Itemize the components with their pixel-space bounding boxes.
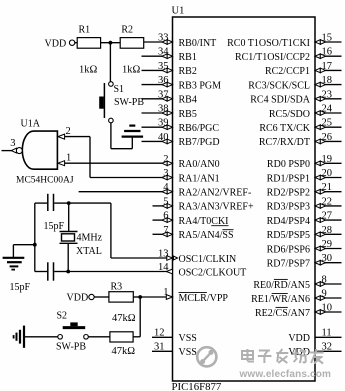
- svg-text:1: 1: [163, 287, 168, 298]
- svg-text:R2: R2: [121, 24, 133, 35]
- svg-text:11: 11: [322, 328, 332, 339]
- value label 1k&#937; (R1): [79, 64, 98, 75]
- svg-text:4: 4: [163, 182, 169, 193]
- U1 pin 7 (RA5/AN4/SS): [153, 225, 234, 241]
- svg-text:RA5/AN4/SS: RA5/AN4/SS: [179, 230, 234, 241]
- svg-text:27: 27: [322, 211, 333, 222]
- svg-text:VSS: VSS: [179, 347, 197, 358]
- ground (crystal): [3, 258, 25, 270]
- U1 pin 18 (RC3/SCK/SCL): [248, 75, 341, 91]
- svg-text:RC1/T1OSI/CCP2: RC1/T1OSI/CCP2: [235, 52, 310, 63]
- svg-text:MC54HC00AJ: MC54HC00AJ: [16, 176, 74, 186]
- svg-text:RB3 PGM: RB3 PGM: [179, 80, 222, 91]
- capacitor C2 15pF (bottom): [10, 262, 54, 293]
- U1A pin 1 input: [58, 152, 71, 165]
- U1 pin 2 (RA0/AN0): [162, 154, 220, 170]
- svg-text:R1: R1: [79, 24, 91, 35]
- switch S1 (SW-PB): [99, 82, 144, 123]
- svg-text:RC5/SDO: RC5/SDO: [269, 109, 310, 120]
- power flag VDD (reset): [67, 293, 95, 304]
- U1 pin 28 (RD5/PSP5): [267, 225, 342, 241]
- svg-text:31: 31: [154, 342, 165, 353]
- wire U1A pin 2 to U1 pin 3 (RA1): [65, 137, 163, 178]
- U1 pin 38 (RB5): [142, 104, 197, 120]
- U1 pin 33 (RB0/INT): [144, 33, 217, 49]
- U1 pin 3 (RA1/AN1): [162, 168, 220, 184]
- svg-text:SW-PB: SW-PB: [114, 97, 144, 108]
- svg-text:6: 6: [163, 211, 168, 222]
- resistor R1: [77, 24, 100, 48]
- svg-text:15pF: 15pF: [10, 282, 31, 293]
- svg-text:RD4/PSP4: RD4/PSP4: [267, 216, 310, 227]
- svg-text:R3: R3: [111, 281, 123, 292]
- svg-text:RB1: RB1: [179, 52, 197, 63]
- svg-text:24: 24: [322, 104, 333, 115]
- svg-text:10: 10: [322, 303, 333, 314]
- svg-text:RD5/PSP5: RD5/PSP5: [267, 230, 310, 241]
- U1 pin 12 (VSS): [152, 328, 197, 345]
- node E junction (R3/R4/MCLR): [138, 295, 142, 299]
- IC U1 box (PIC16F877): [173, 17, 316, 381]
- svg-text:40: 40: [158, 132, 169, 143]
- svg-text:RE2/CS/AN7: RE2/CS/AN7: [255, 308, 310, 319]
- svg-text:33: 33: [158, 33, 169, 44]
- svg-text:1kΩ: 1kΩ: [79, 64, 98, 75]
- wire ground to S2: [25, 336, 58, 338]
- svg-text:15pF: 15pF: [44, 221, 65, 232]
- U1 pin 17 (RC2/CCP1): [265, 61, 342, 77]
- value label 47k&#937; (R3): [112, 313, 136, 324]
- wire ground rail (C1 to C2): [34, 203, 36, 271]
- svg-text:7: 7: [163, 225, 168, 236]
- U1 pin 5 (RA3/AN3/VREF+): [153, 196, 254, 212]
- svg-text:S1: S1: [114, 84, 125, 95]
- svg-text:OSC2/CLKOUT: OSC2/CLKOUT: [179, 267, 247, 278]
- svg-text:47kΩ: 47kΩ: [112, 313, 136, 324]
- U1 pin 16 (RC1/T1OSI/CCP2): [235, 47, 342, 63]
- svg-text:OSC1/CLKIN: OSC1/CLKIN: [179, 254, 237, 265]
- svg-text:30: 30: [322, 253, 333, 264]
- crystal Y1 4MHz XTAL: [60, 203, 103, 271]
- svg-text:RB4: RB4: [179, 95, 197, 106]
- svg-text:15: 15: [322, 33, 333, 44]
- svg-text:39: 39: [158, 118, 169, 129]
- U1 pin 23 (RC4 SDI/SDA): [250, 89, 341, 105]
- resistor R3: [109, 281, 133, 302]
- svg-text:RB2: RB2: [179, 66, 197, 77]
- wire node B to OSC1: [69, 203, 111, 258]
- U1 pin 20 (RD1/PSP1): [267, 168, 342, 184]
- svg-text:VDD: VDD: [45, 39, 67, 50]
- svg-text:RC7/RX/DT: RC7/RX/DT: [259, 137, 310, 148]
- ground (S1): [122, 126, 144, 137]
- wire node A to S1: [109, 43, 111, 82]
- PIC16F877 part label: [172, 381, 222, 391]
- U1 pin 34 (RB1): [142, 47, 197, 63]
- U1 pin 30 (RD7/PSP7): [267, 253, 342, 269]
- svg-text:RA3/AN3/VREF+: RA3/AN3/VREF+: [179, 202, 254, 213]
- U1A pin 3 output stub: [2, 138, 17, 153]
- wire node E down to R4: [133, 297, 140, 337]
- ground (S2, rotated): [14, 326, 24, 348]
- svg-text:RD0 PSP0: RD0 PSP0: [267, 159, 310, 170]
- U1 pin 21 (RD2/PSP2): [267, 182, 342, 198]
- svg-text:S2: S2: [57, 311, 68, 322]
- svg-text:RD6/PSP6: RD6/PSP6: [267, 244, 310, 255]
- U1 pin 26 (RC7/RX/DT): [259, 132, 342, 148]
- U1 pin 24 (RC5/SDO): [269, 104, 342, 120]
- svg-text:VSS: VSS: [179, 333, 197, 344]
- svg-text:VDD: VDD: [288, 333, 310, 344]
- svg-text:17: 17: [322, 61, 333, 72]
- watermark url (decorative): [239, 369, 332, 380]
- svg-text:RB0/INT: RB0/INT: [179, 38, 217, 49]
- svg-text:RA2/AN2/VREF-: RA2/AN2/VREF-: [179, 188, 252, 199]
- wire S1 to ground: [111, 123, 132, 149]
- svg-text:4MHz: 4MHz: [77, 233, 103, 244]
- svg-text:U1: U1: [172, 6, 185, 17]
- svg-text:38: 38: [158, 104, 169, 115]
- svg-text:14: 14: [158, 262, 169, 273]
- wire C2 left: [35, 271, 47, 273]
- wire node C to ground: [13, 245, 34, 257]
- svg-text:RB6/PGC: RB6/PGC: [179, 123, 220, 134]
- svg-text:36: 36: [158, 75, 169, 86]
- watermark logo (decorative): [197, 347, 216, 366]
- U1 pin 9 (RE1/WR/AN6): [251, 289, 341, 305]
- power flag VDD (top): [45, 39, 75, 50]
- svg-text:RA1/AN1: RA1/AN1: [179, 173, 220, 184]
- U1 pin 15 (RC0 T1OSO/T1CKI): [227, 33, 341, 49]
- svg-text:47kΩ: 47kΩ: [112, 346, 136, 357]
- wire S2 to R4: [88, 336, 110, 338]
- wire C2 right to OSC2: [54, 271, 68, 273]
- wire C1 right to XTAL node: [54, 202, 68, 204]
- svg-text:U1A: U1A: [21, 119, 41, 130]
- svg-text:RC2/CCP1: RC2/CCP1: [265, 66, 310, 77]
- svg-text:RE0/RD/AN5: RE0/RD/AN5: [253, 280, 310, 291]
- wire R3 to node E: [133, 296, 140, 298]
- svg-text:RC6 TX/CK: RC6 TX/CK: [259, 123, 310, 134]
- node D junction (C2/XTAL/OSC2): [66, 270, 70, 274]
- svg-text:VDD: VDD: [288, 347, 310, 358]
- value label 47k&#937; (R4): [112, 346, 136, 357]
- svg-text:RD2/PSP2: RD2/PSP2: [267, 188, 310, 199]
- U1 pin 6 (RA4/T0CKI): [153, 211, 229, 227]
- svg-text:5: 5: [163, 196, 168, 207]
- svg-text:RE1/WR/AN6: RE1/WR/AN6: [251, 294, 310, 305]
- wire R1 to node A: [101, 42, 121, 44]
- svg-text:22: 22: [322, 196, 333, 207]
- wire VDD to R3: [94, 296, 109, 298]
- watermark text (decorative): [242, 349, 324, 364]
- svg-text:9: 9: [322, 289, 327, 300]
- U1 pin 4 (RA2/AN2/VREF-): [79, 182, 252, 198]
- node A junction (R1/R2/S1): [109, 41, 113, 45]
- svg-text:26: 26: [322, 132, 333, 143]
- U1 pin 27 (RD4/PSP4): [267, 211, 342, 227]
- U1 pin 39 (RB6/PGC): [142, 118, 220, 134]
- svg-text:29: 29: [322, 239, 333, 250]
- svg-text:SW-PB: SW-PB: [56, 342, 86, 353]
- svg-text:VDD: VDD: [67, 293, 89, 304]
- svg-text:13: 13: [158, 249, 169, 260]
- wire C1 left to ground rail: [35, 202, 47, 204]
- U1 pin 14 (OSC2/CLKOUT): [68, 262, 246, 278]
- U1 pin 31 (VSS): [152, 342, 197, 359]
- svg-text:32: 32: [322, 342, 333, 353]
- U1A pin 2 input: [58, 126, 71, 139]
- svg-text:8: 8: [322, 275, 327, 286]
- svg-text:MCLR/VPP: MCLR/VPP: [179, 293, 229, 304]
- svg-text:34: 34: [158, 47, 169, 58]
- svg-text:19: 19: [322, 154, 333, 165]
- U1 pin 10 (RE2/CS/AN7): [255, 303, 342, 319]
- wire U1A pin 1 to U1 pin 2 (RA0): [65, 162, 163, 164]
- svg-text:20: 20: [322, 168, 333, 179]
- node C junction (ground tap): [33, 243, 37, 247]
- U1 pin 1 (MCLR/VPP): [140, 287, 228, 304]
- U1 pin 13 (OSC1/CLKIN): [111, 249, 236, 265]
- U1 pin 29 (RD6/PSP6): [267, 239, 342, 255]
- U1 pin 37 (RB4): [142, 89, 197, 105]
- svg-text:XTAL: XTAL: [76, 246, 102, 257]
- svg-text:RC0 T1OSO/T1CKI: RC0 T1OSO/T1CKI: [227, 38, 310, 49]
- U1 pin 11 (VDD): [288, 328, 341, 345]
- svg-text:RB5: RB5: [179, 109, 197, 120]
- svg-text:1kΩ: 1kΩ: [122, 64, 141, 75]
- svg-text:37: 37: [158, 89, 169, 100]
- svg-text:PIC16F877: PIC16F877: [172, 381, 222, 391]
- NAND gate U1A (MC54HC00AJ): [16, 119, 74, 186]
- svg-text:2: 2: [163, 154, 168, 165]
- U1 pin 22 (RD3/PSP3): [267, 196, 342, 212]
- svg-text:23: 23: [322, 89, 333, 100]
- svg-text:RD1/PSP1: RD1/PSP1: [267, 173, 310, 184]
- svg-text:1: 1: [66, 152, 71, 163]
- svg-text:21: 21: [322, 182, 333, 193]
- node B junction (C1/XTAL/OSC1): [67, 201, 71, 205]
- value label 1k&#937; (R2): [122, 64, 141, 75]
- U1 pin 32 (VDD): [288, 342, 341, 359]
- svg-text:RD7/PSP7: RD7/PSP7: [267, 259, 310, 270]
- U1 pin 40 (RB7/PGD): [142, 132, 220, 148]
- capacitor C1 15pF (top): [44, 194, 65, 232]
- U1 pin 35 (RB2): [142, 61, 197, 77]
- U1 reference label: [172, 6, 185, 17]
- svg-text:RA0/AN0: RA0/AN0: [179, 159, 220, 170]
- svg-text:12: 12: [154, 328, 165, 339]
- svg-text:18: 18: [322, 75, 333, 86]
- resistor R4 47k: [110, 332, 133, 342]
- svg-text:28: 28: [322, 225, 333, 236]
- svg-text:35: 35: [158, 61, 169, 72]
- svg-text:RC4 SDI/SDA: RC4 SDI/SDA: [250, 95, 311, 106]
- svg-text:3: 3: [10, 138, 15, 149]
- U1 pin 8 (RE0/RD/AN5): [253, 275, 341, 291]
- svg-text:RB7/PGD: RB7/PGD: [179, 137, 220, 148]
- U1 pin 19 (RD0 PSP0): [267, 154, 342, 170]
- svg-text:RC3/SCK/SCL: RC3/SCK/SCL: [248, 80, 310, 91]
- resistor R2: [120, 24, 144, 48]
- wire VDD to R1: [75, 42, 77, 44]
- U1 pin 25 (RC6 TX/CK): [259, 118, 341, 134]
- svg-text:www.elecfans.com: www.elecfans.com: [239, 369, 332, 380]
- svg-text:2: 2: [66, 126, 71, 137]
- U1 pin 36 (RB3 PGM): [142, 75, 222, 91]
- svg-text:16: 16: [322, 47, 333, 58]
- switch S2 (SW-PB): [56, 311, 88, 353]
- svg-text:RD3/PSP3: RD3/PSP3: [267, 202, 310, 213]
- svg-text:25: 25: [322, 118, 333, 129]
- svg-text:3: 3: [163, 168, 168, 179]
